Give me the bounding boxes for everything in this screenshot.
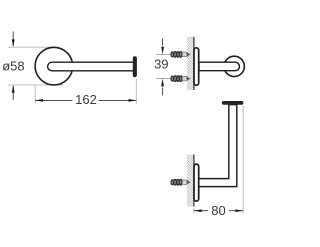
- dimension 39 upper arrow: [161, 47, 164, 55]
- roll holder bar (front view): [48, 62, 135, 71]
- extension line from flange left tangent: [34, 86, 36, 104]
- dimension 39 upper leader line: [162, 39, 164, 46]
- dimension 80 line left segment: [194, 210, 208, 212]
- dimension ø58 upper leader line: [12, 32, 14, 47]
- dimension ø58 lower leader line: [12, 86, 14, 100]
- extension line from end cap right edge: [135, 79, 137, 104]
- extension line from bottom cap right edge: [242, 106, 244, 214]
- extension tick below wall face: [193, 208, 195, 214]
- svg-text:162: 162: [75, 92, 97, 107]
- lower screw axis extension line: [156, 78, 190, 80]
- lower mounting screw: [171, 76, 191, 82]
- wall hatching (side view bottom): [187, 155, 194, 207]
- dimension 80 line right segment: [229, 210, 243, 212]
- dimension ø58 bottom extension line: [8, 84, 64, 86]
- dimension ø58 lower arrow: [12, 85, 15, 93]
- flange circle (front view): [35, 47, 73, 85]
- dimension 39 lower arrow: [161, 79, 164, 87]
- dimension 162 left arrow: [35, 99, 43, 102]
- wall hatching (side view top): [187, 37, 194, 90]
- svg-text:39: 39: [154, 57, 168, 72]
- rod (side view top): [199, 62, 239, 70]
- end cap (front view): [133, 56, 137, 77]
- mounting screw (side view bottom): [171, 179, 191, 185]
- L-shaped rod (side view bottom): [199, 105, 237, 187]
- dimension 162 right arrow: [129, 99, 137, 102]
- rod end disc (side view top): [224, 56, 244, 76]
- dimension ø58 upper arrow: [12, 39, 15, 47]
- wall face line (side view top): [193, 37, 195, 90]
- wall plate (side view bottom): [194, 164, 199, 201]
- wall face line (side view bottom): [193, 155, 195, 207]
- wall plate (side view top): [194, 48, 199, 85]
- dimension 162 line right segment: [99, 99, 137, 101]
- svg-text:80: 80: [211, 203, 225, 218]
- upper mounting screw: [171, 52, 191, 58]
- end cap (side view bottom): [222, 101, 244, 105]
- dimension 80 right arrow: [235, 209, 243, 212]
- dimension 39 lower leader line: [162, 88, 164, 96]
- svg-text:ø58: ø58: [2, 59, 24, 74]
- dimension 80 left arrow: [194, 209, 202, 212]
- dimension 162 line left segment: [35, 99, 72, 101]
- dimension ø58 top extension line: [8, 46, 54, 48]
- upper screw axis extension line: [156, 53, 190, 55]
